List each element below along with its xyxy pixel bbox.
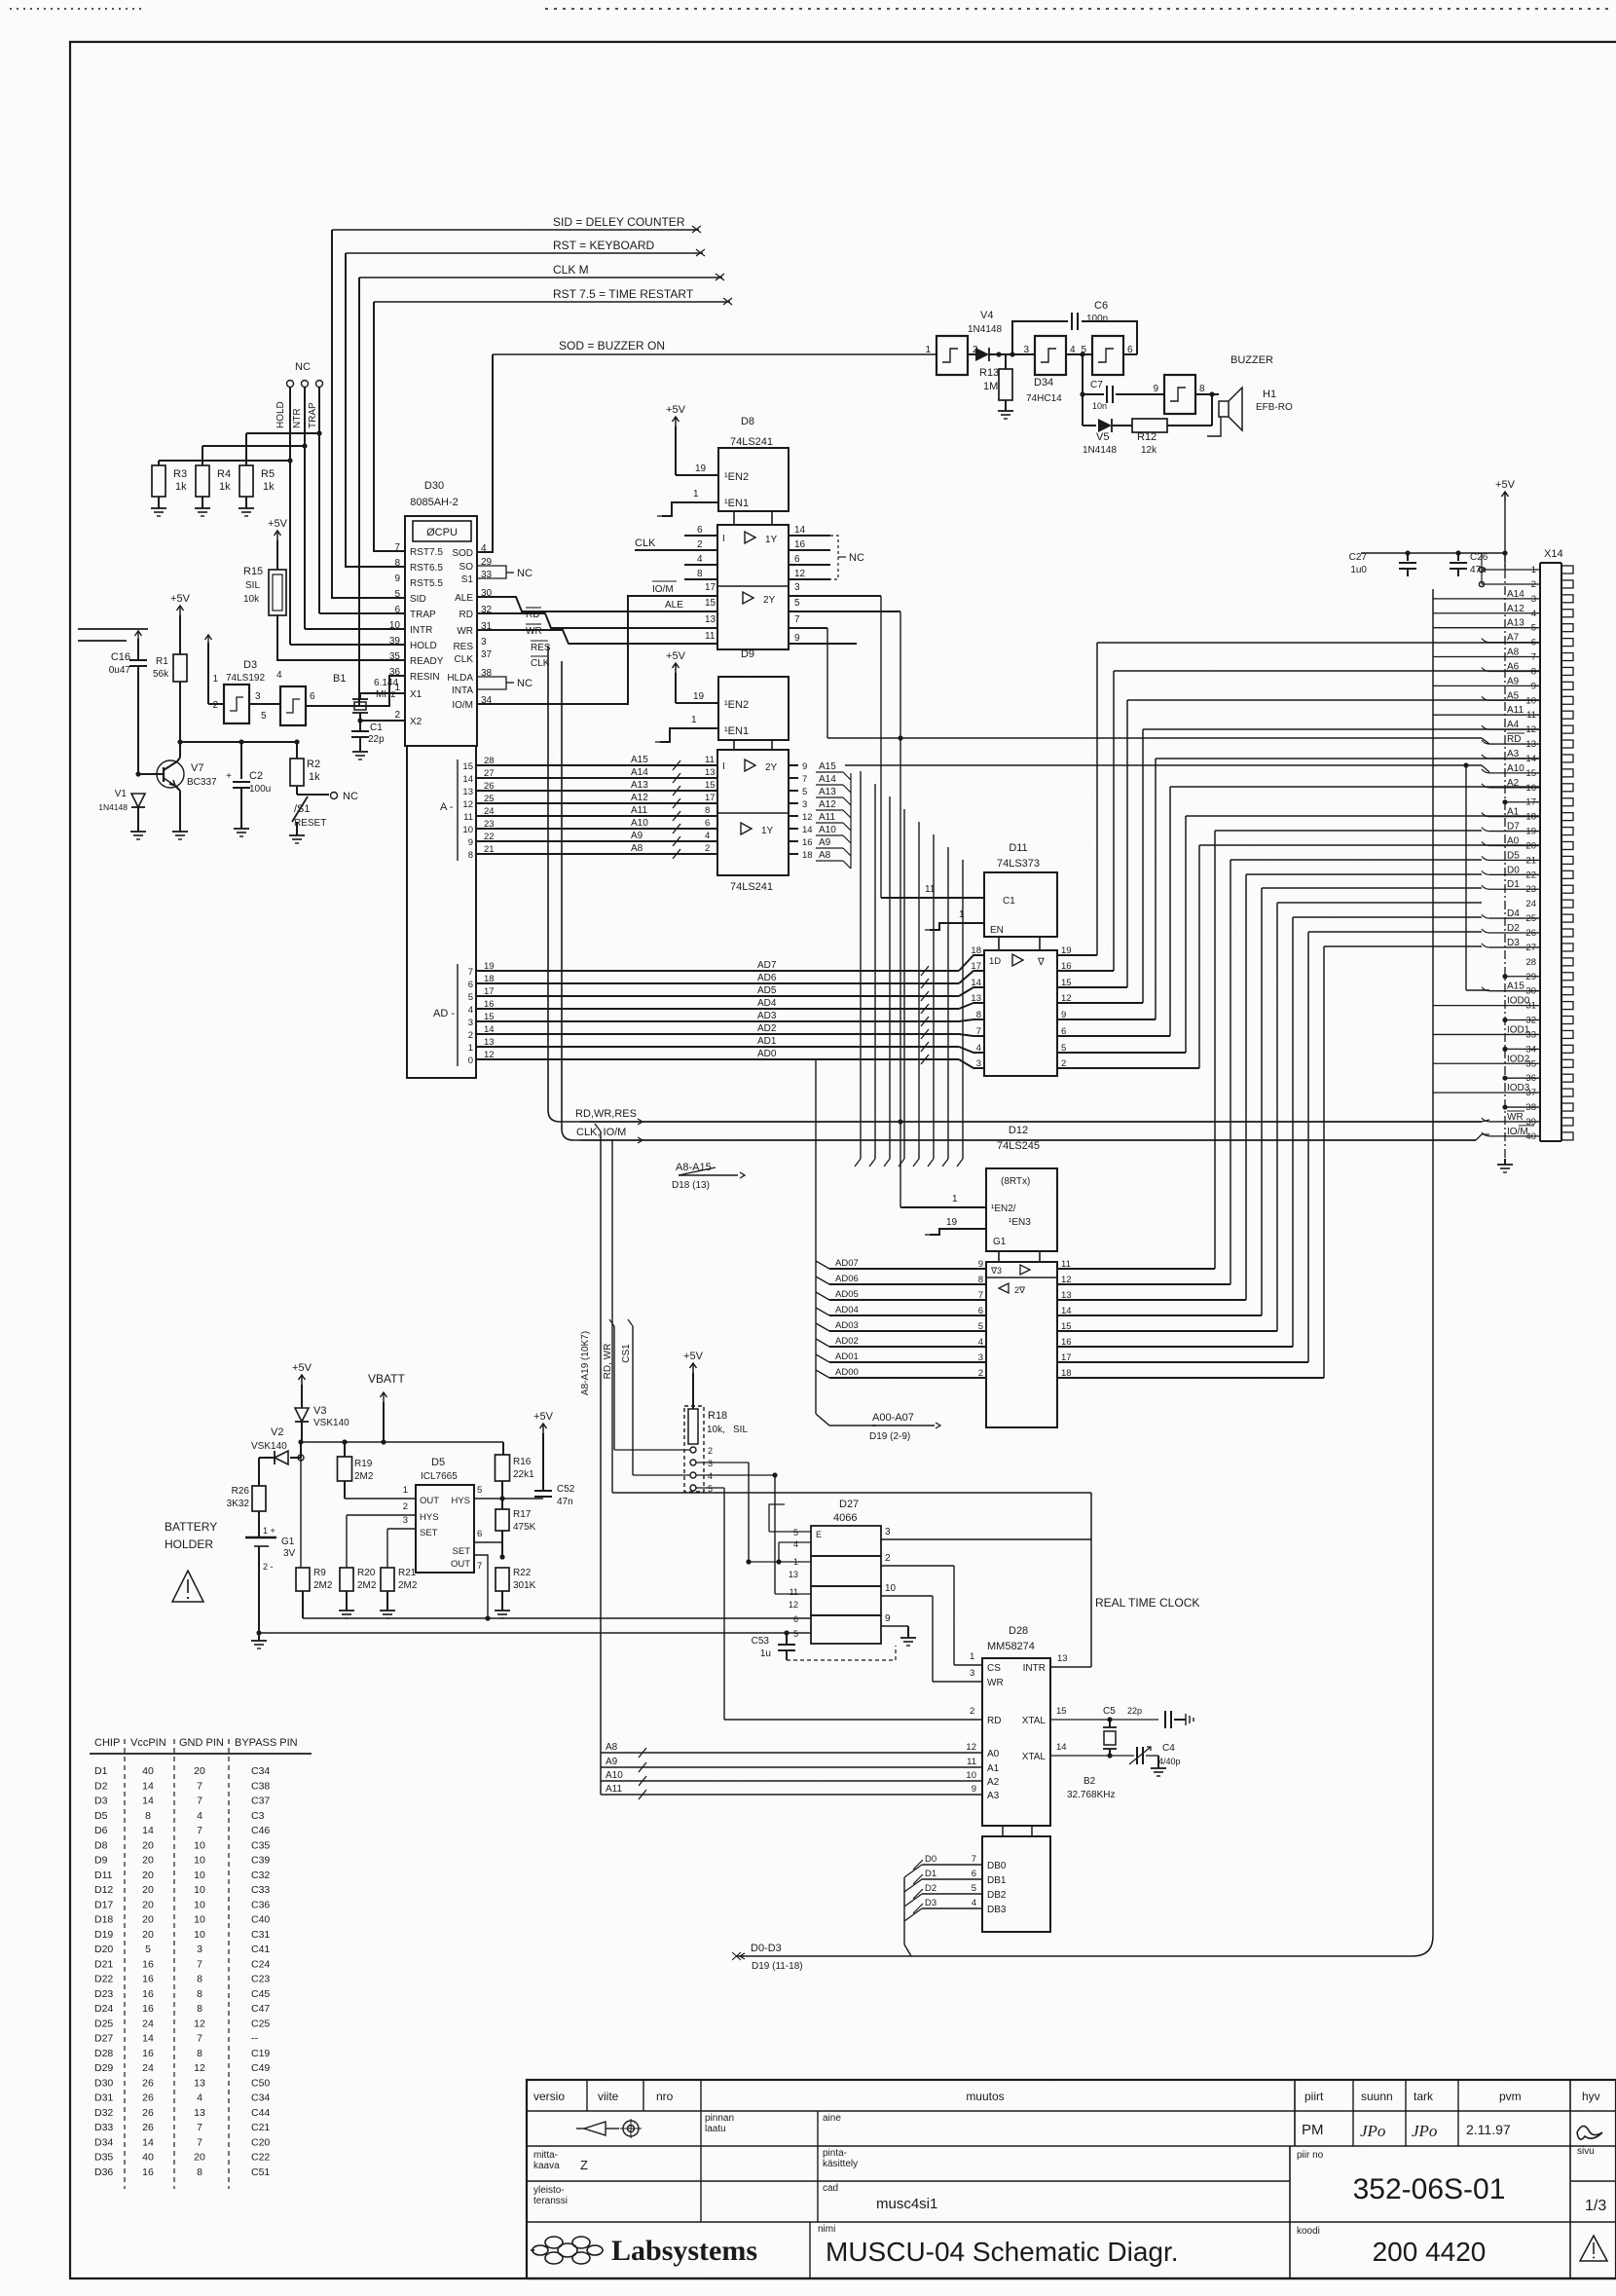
wire D3 input (205, 635, 225, 704)
warning triangle title (1580, 2236, 1607, 2261)
inverter D34c (pins 5,6) (1081, 336, 1133, 375)
long wire RD to X14 pin13 (827, 735, 1489, 744)
resistor R18 10k SIL (684, 1406, 748, 1494)
4066 pin3 out to INTR loop (612, 1493, 1091, 1667)
analog switch U D27 4066 label (833, 1499, 859, 1524)
4066 box2 input wire (746, 1559, 811, 1564)
bus vertical to D19 loop (911, 589, 1433, 1956)
ground under battery line (251, 1635, 267, 1648)
ground under R20 (339, 1605, 354, 1618)
D12 outputs (1057, 1259, 1072, 1379)
4066 pin10 out to WR (881, 1583, 982, 1682)
D5 pin7 OUT wire (474, 1554, 505, 1620)
4066 switch box 3 (811, 1586, 881, 1615)
inverter D34d (pins 9,8) (1153, 375, 1205, 414)
resistor R21 2M2 (381, 1568, 418, 1605)
D8 upper outputs NC (789, 525, 864, 579)
buffer U D9 74LS241 control box (718, 648, 789, 750)
arrow RD WR vertical (603, 1319, 614, 1450)
capacitor C53 1u (752, 1633, 896, 1660)
resistor R26 3K32 (227, 1458, 266, 1537)
diode V4 1N4148 (968, 310, 1002, 361)
net label line RST = KEYBOARD (346, 239, 705, 256)
resistor R2 1k (290, 742, 320, 795)
projection symbol (576, 2119, 642, 2138)
ground under S1 (289, 830, 305, 843)
capacitor C27 1u0 (1349, 552, 1416, 576)
AD bus into D12 (816, 1059, 986, 1414)
4066 pin2 out to CS (881, 1553, 982, 1665)
4066 row1 wire (810, 1615, 812, 1617)
node row collector (177, 739, 299, 744)
ground rail inside X14 (1479, 553, 1540, 1159)
title nimi (818, 2224, 1179, 2267)
resistor R22 301K (496, 1568, 536, 1605)
diode V3 VSK140 (295, 1405, 349, 1442)
D5 pin1 OUT line (345, 1485, 416, 1499)
capacitor C7 10n (1080, 380, 1164, 411)
resistor R9 2M2 (296, 1458, 333, 1618)
D5 pin5 HYS wire (474, 1485, 543, 1501)
AD bus cpu to D11 (496, 945, 984, 1069)
ground under V7 (172, 826, 188, 839)
battery G1 3V (245, 1526, 296, 1633)
+5V rail at X14 (1361, 479, 1516, 570)
buffer U D9 74LS241 main box (717, 750, 789, 893)
latched address bus nest D11 to X14 (1071, 643, 1540, 1068)
capacitor C1 22p (351, 721, 385, 746)
ground under C1 (352, 746, 368, 759)
wire R18 pin3 right (696, 1463, 749, 1562)
resistor R4 1k (196, 446, 305, 502)
ground under C2 (234, 823, 249, 836)
arrow CLK IO/M (562, 661, 1489, 1143)
arrow AD0-AD7 D19 (816, 1412, 940, 1442)
long wire battery row 1 (303, 1617, 811, 1619)
labels RD WR RES CLK at cpu right (526, 608, 551, 669)
D5 pin3 SET line (387, 1515, 416, 1568)
buzzer H1 EFB-RO (1207, 354, 1293, 436)
4066 pin9 ground (881, 1613, 916, 1646)
ground pin stubs X14 (1502, 799, 1540, 1110)
D28 XTAL14 wire C4 trimmer (1050, 1742, 1181, 1776)
rtc U D28 MM58274 (982, 1625, 1050, 1826)
capacitor C26 47n (1450, 552, 1488, 576)
D8 EN1 pin1 wire (657, 489, 718, 516)
wire SID vertical (332, 230, 405, 598)
label D34 74HC14 (1026, 377, 1062, 404)
D8 lower inputs (477, 581, 717, 704)
ground under R13 (998, 405, 1013, 419)
wire to buzzer (1195, 391, 1219, 396)
4066 switch box 1 (811, 1526, 881, 1556)
resistor R3 1k (152, 461, 290, 502)
wire R18 pin4 right (696, 1472, 778, 1594)
4066 switch box 4 (811, 1615, 881, 1644)
resistor R1 56k (153, 615, 187, 742)
net label line SID = DELEY COUNTER (332, 215, 701, 233)
4066 box3 input wire (775, 1593, 811, 1595)
diode V5 1N4148 (1083, 419, 1132, 456)
switch S1 RESET (292, 791, 358, 830)
page number (1585, 2198, 1606, 2214)
D5 pin6 SET wire (474, 1529, 502, 1542)
arrow D0-D3 D19 (732, 1943, 911, 1972)
wire TRAP vertical (316, 388, 405, 613)
capacitor C52 47n (534, 1484, 575, 1507)
label NTR (292, 408, 303, 428)
D9 output pin numbers (789, 761, 813, 861)
title block row lines (527, 2111, 1616, 2222)
wire stub from left border 1 (78, 628, 148, 630)
crystal B2 32.768KHz (1067, 1720, 1117, 1800)
address lines A8-A11 into D28 (601, 1742, 982, 1799)
4066 box1 ctrl wires (769, 1504, 811, 1565)
gate D3 74LS192 (212, 659, 315, 725)
cpu address pins A8-A15 (440, 756, 496, 861)
resistor R17 475K (496, 1499, 536, 1557)
4066 switch box 2 (811, 1556, 881, 1586)
D5 pin2 HYS line (347, 1501, 416, 1568)
label HOLD (275, 401, 286, 428)
title row1 labels (533, 2090, 1600, 2103)
ground under R21 (380, 1605, 395, 1618)
label VBATT (368, 1372, 405, 1442)
vertical wire to RTC INTR loop (611, 1139, 613, 1493)
wire RST6.5 vertical (346, 253, 405, 567)
arrow RD,WR,RES (548, 646, 1489, 1125)
resistor R5 1k (239, 433, 319, 502)
NC bracket S0/S1 (477, 566, 533, 579)
D11 EN pin1 wire (925, 909, 984, 930)
cpu addr/data pins AD0-AD7 (433, 961, 496, 1066)
warning triangle battery (172, 1571, 203, 1602)
ground under R3 (151, 502, 166, 516)
diode V1 1N4148 (98, 789, 145, 826)
resistor R20 2M2 (340, 1568, 377, 1605)
crystal B1 6.144 MHz (333, 673, 405, 723)
label REAL TIME CLOCK (1095, 1596, 1199, 1610)
wire D3 inter-gate (249, 703, 280, 705)
chip power pin table (90, 1737, 312, 2189)
net SOD = BUZZER ON (477, 339, 937, 552)
resistor R15 SIL 10k (243, 540, 405, 660)
+5V for R15 (268, 518, 288, 540)
ic D5 ICL7665 (416, 1457, 474, 1573)
D12 pin19 wire (925, 1217, 986, 1235)
labsystems logo (531, 2235, 757, 2267)
wire box2-box3 (1066, 353, 1092, 355)
net label line CLK M (359, 263, 724, 280)
wire CLK M vertical (358, 278, 360, 706)
latch U D11 74LS373 control box (984, 842, 1057, 950)
label TRAP (308, 402, 318, 428)
D12 pin1 wire (898, 1119, 986, 1207)
wire HOLD vertical (287, 388, 405, 645)
wire stub from left border 2 (78, 640, 127, 642)
resistor R16 22k1 (496, 1442, 535, 1499)
ground under R5 (239, 502, 254, 516)
D11 outputs (1057, 945, 1072, 1069)
power rail VBATT node (298, 1439, 503, 1444)
capacitor C2 100u (226, 742, 271, 823)
connector X14 signal labels (1433, 589, 1540, 1137)
vertical bus A8-A19 (580, 1124, 601, 1795)
+5V to V3 (292, 1362, 312, 1408)
NC bracket HLDA/INTA (477, 677, 533, 689)
wire RST7.5 vertical (374, 302, 405, 551)
capacitor C16 0u47 (109, 631, 147, 774)
wire R18 pin4 left (633, 1474, 690, 1476)
+5V to D8 EN2 (666, 404, 718, 475)
connector X14 body and pins (1525, 548, 1573, 1142)
wire buzzer node (999, 353, 1035, 355)
ground under R22 (495, 1605, 510, 1618)
resistor R19 2M2 (338, 1442, 374, 1499)
address bus A8-A15 cpu to D9 (496, 755, 717, 859)
title block outer (527, 2080, 1616, 2278)
wire down to C7 row (1080, 352, 1084, 426)
wire NTR vertical (302, 388, 405, 629)
inverter D34b (pins 3,4) (1023, 336, 1076, 375)
+5V above R18 (683, 1351, 704, 1409)
4066 left pin numbers (789, 1528, 798, 1639)
D9 EN1 pin1 wire (655, 715, 718, 742)
ground under R4 (195, 502, 210, 516)
buffer U D8 74LS241 main box (717, 525, 789, 649)
D8 lower outputs (789, 582, 900, 1207)
NC terminals (287, 361, 323, 388)
+5V to D9 EN2 (666, 650, 718, 703)
arrow A8-A15 D18 (672, 1162, 745, 1191)
wire R18 pin2 left (614, 1449, 690, 1451)
latch U D11 74LS373 main box (984, 950, 1057, 1076)
D8 upper inputs + CLK (635, 525, 717, 579)
A bus stacked ribbon at D9 outputs (816, 761, 851, 869)
wire R18 pin5 right (696, 1488, 724, 1720)
data lines D0-D3 into D28 (904, 1854, 982, 1956)
title koodi value (1373, 2237, 1487, 2267)
D11 pin11 wire (881, 884, 984, 898)
title block column lines (587, 2080, 1570, 2278)
+5V above C52 (533, 1411, 554, 1490)
drawing number (1353, 2173, 1506, 2205)
D28 RD wire (724, 1706, 982, 1720)
resistor R12 12k (1132, 394, 1212, 456)
title row3 labels (533, 2146, 1595, 2172)
long wire A10 to X14 pin15 (845, 762, 1489, 772)
capacitor C6 100n feedback loop (1012, 300, 1137, 354)
diode V2 VSK140 (251, 1426, 304, 1464)
arrow CS1 vertical (621, 1319, 633, 1475)
wire box3 out (1123, 353, 1137, 355)
wire D3 out to RESIN (306, 676, 405, 706)
title row4 labels (533, 2183, 1320, 2237)
D28 XTAL15 wire C5 (1050, 1706, 1194, 1728)
data bus nest D12 to X14 (1071, 831, 1482, 1378)
buffer U D8 74LS241 control box (718, 416, 789, 525)
transceiver U D12 74LS245 control box (986, 1125, 1057, 1262)
cpu U D30 8085AH-2 (389, 480, 493, 1078)
rtc D28 lower box (982, 1826, 1050, 1932)
ground under X14 (1497, 1159, 1513, 1172)
inverter D34a (pins 1,2) (925, 336, 978, 375)
ground under V1 (130, 826, 146, 839)
border frame top scan artifacts (10, 8, 1611, 10)
transceiver U D12 74LS245 main box (986, 1262, 1057, 1427)
+5V above R1 (170, 593, 191, 615)
wire A15 drop to pin30 (1466, 765, 1489, 990)
label BATTERY HOLDER (165, 1520, 217, 1551)
net label line RST 7.5 = TIME RESTART (374, 287, 732, 305)
long wire battery row 2 (256, 1630, 811, 1635)
A8-A15 bus verticals going down (855, 771, 963, 1167)
title row2 labels (705, 2113, 1602, 2140)
transistor V7 BC337 (135, 742, 217, 826)
resistor R13 1M (979, 352, 1015, 405)
